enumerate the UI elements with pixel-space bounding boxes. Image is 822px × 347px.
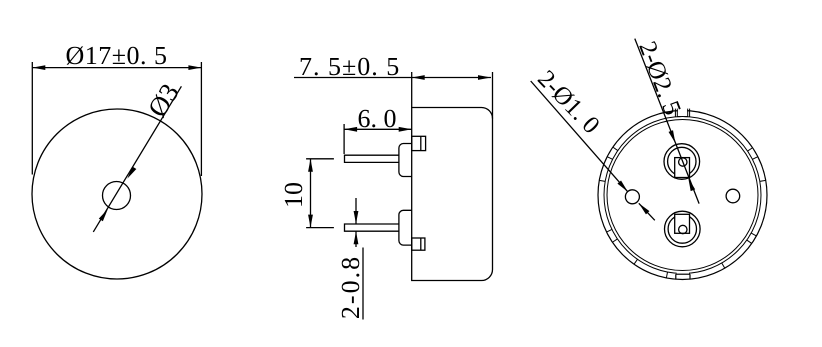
- svg-text:10: 10: [279, 182, 308, 208]
- dimension 2-0.8 pin diameter: [336, 198, 365, 320]
- back view outer rim circle: [598, 111, 767, 280]
- side view top lug: [412, 136, 426, 150]
- back view top keying notch: [675, 106, 689, 117]
- back view right hole: [726, 189, 740, 203]
- svg-text:6. 0: 6. 0: [358, 104, 397, 133]
- dimension 10: [279, 159, 334, 228]
- svg-text:7. 5±0. 5: 7. 5±0. 5: [299, 52, 400, 81]
- front view disc outline: [32, 109, 202, 279]
- front view center hole: [103, 182, 131, 210]
- back view rim segment ticks: [599, 147, 765, 278]
- svg-text:2-0.8: 2-0.8: [336, 255, 365, 319]
- side view body outline: [412, 108, 493, 281]
- leader 2-Ø2.5: [633, 38, 699, 204]
- back view bottom keying notch: [676, 272, 690, 280]
- side view bottom lug: [412, 238, 425, 250]
- leader 2-Ø1.0: [531, 65, 655, 220]
- side view top pin: [345, 155, 399, 162]
- dimension 7.5±0.5: [294, 52, 493, 119]
- back view bottom pin hole Ø2.5: [665, 211, 701, 247]
- back view left hole Ø1.0: [625, 190, 639, 204]
- leader Ø3: [93, 78, 185, 232]
- side view bottom pin: [345, 224, 399, 231]
- back view inner rim circles: [604, 117, 761, 274]
- dimension 6.0: [344, 104, 412, 154]
- side view bottom terminal boss: [399, 210, 412, 245]
- dimension Ø17±0.5: [32, 41, 201, 176]
- back view top pin hole Ø2.5: [664, 144, 700, 180]
- svg-text:Ø17±0. 5: Ø17±0. 5: [65, 41, 167, 70]
- side view top terminal boss: [399, 144, 412, 177]
